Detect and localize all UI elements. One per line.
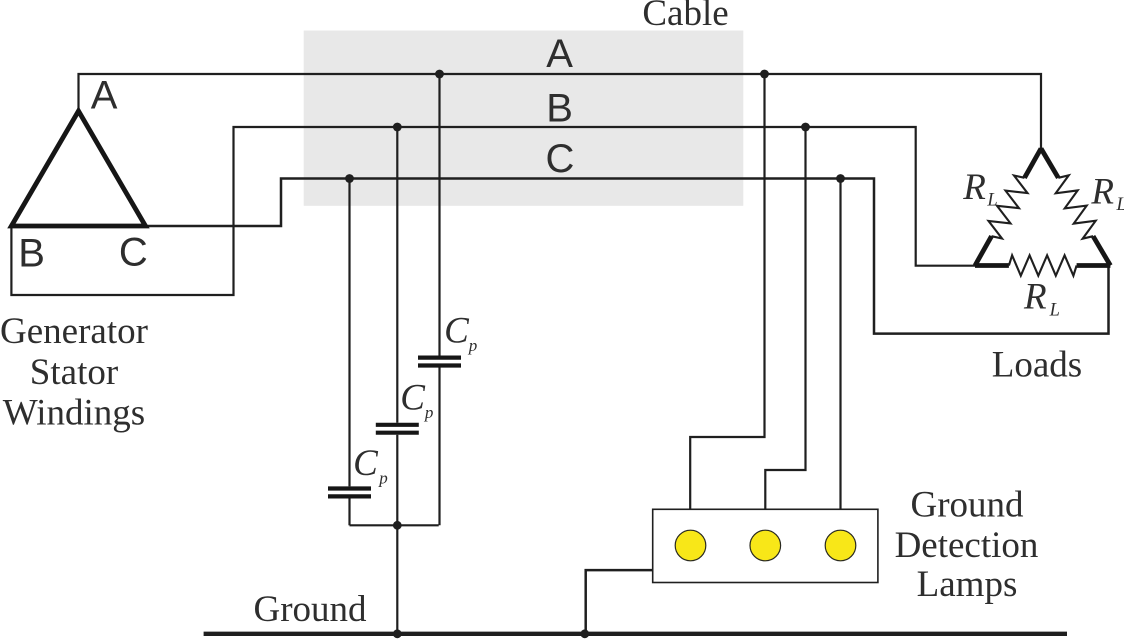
wire lamp drop from phase A [690,74,764,510]
svg-text:Cp: Cp [353,443,388,488]
wire phase C: generator C terminal to cable to load bottom-right [146,179,1109,334]
svg-text:Stator: Stator [30,352,118,393]
junction node B / cap drop [393,123,402,132]
svg-text:Cp: Cp [444,311,477,356]
junction node A / lamp drop [760,70,769,79]
cable shield region [304,31,744,206]
svg-text:A: A [91,73,118,117]
wire capacitor drop from phase B [396,127,398,423]
resistor right R_L lead (corner segments) [1041,149,1058,178]
junction ground node at lamp return [580,629,589,638]
svg-text:C: C [546,137,575,181]
ground detection lamp box [653,509,878,582]
svg-text:Ground: Ground [910,484,1024,525]
svg-text:C: C [119,231,148,275]
lamp 3 [825,530,856,561]
svg-text:Ground: Ground [253,589,367,630]
junction ground node at cap drain [393,629,402,638]
junction node A / cap drop [435,70,444,79]
svg-text:RL: RL [1090,171,1124,215]
wire capacitor drop from phase C [348,179,350,487]
svg-text:RL: RL [962,167,997,211]
lamp 1 [675,530,706,561]
wire lamp return to ground [586,570,653,634]
wire capacitor bus to ground [396,525,398,633]
junction node C / cap drop [345,174,354,183]
svg-text:RL: RL [1023,277,1060,321]
resistor right R_L zigzag body [1056,175,1096,238]
wire lamp drop from phase B [765,127,805,510]
svg-text:A: A [546,32,573,76]
svg-text:B: B [18,231,45,275]
svg-text:Cp: Cp [400,377,433,422]
svg-text:B: B [546,87,573,131]
generator delta winding (triangle) [11,111,145,226]
svg-text:Cable: Cable [642,0,728,34]
junction node C / lamp drop [836,174,845,183]
capacitor C_p on phase B [376,423,419,427]
svg-text:Windings: Windings [3,393,145,434]
junction capacitor bus node [393,521,402,530]
wire lamp drop from phase C [839,179,841,510]
resistor bottom R_L lead (corner segments) [975,263,1009,268]
resistor left R_L zigzag body [989,176,1028,239]
resistor bottom R_L zigzag body [1009,255,1077,275]
wire capacitor common bus [350,524,439,526]
svg-text:Lamps: Lamps [917,564,1018,605]
wire capacitor drop from phase A [438,74,440,356]
svg-text:Loads: Loads [992,344,1082,385]
wire phase B: generator B terminal to cable to load bottom-left [11,127,976,295]
lamp 2 [750,530,781,561]
capacitor C_p on phase A [418,356,461,360]
svg-text:Detection: Detection [895,525,1039,566]
resistor left R_L lead (corner segments) [1025,149,1042,178]
wire phase A: generator A terminal to cable to load apex [79,74,1042,149]
capacitor C_p on phase C [328,486,371,490]
junction node B / lamp drop [801,123,810,132]
ground bus line [204,632,1067,636]
svg-text:Generator: Generator [0,311,148,352]
